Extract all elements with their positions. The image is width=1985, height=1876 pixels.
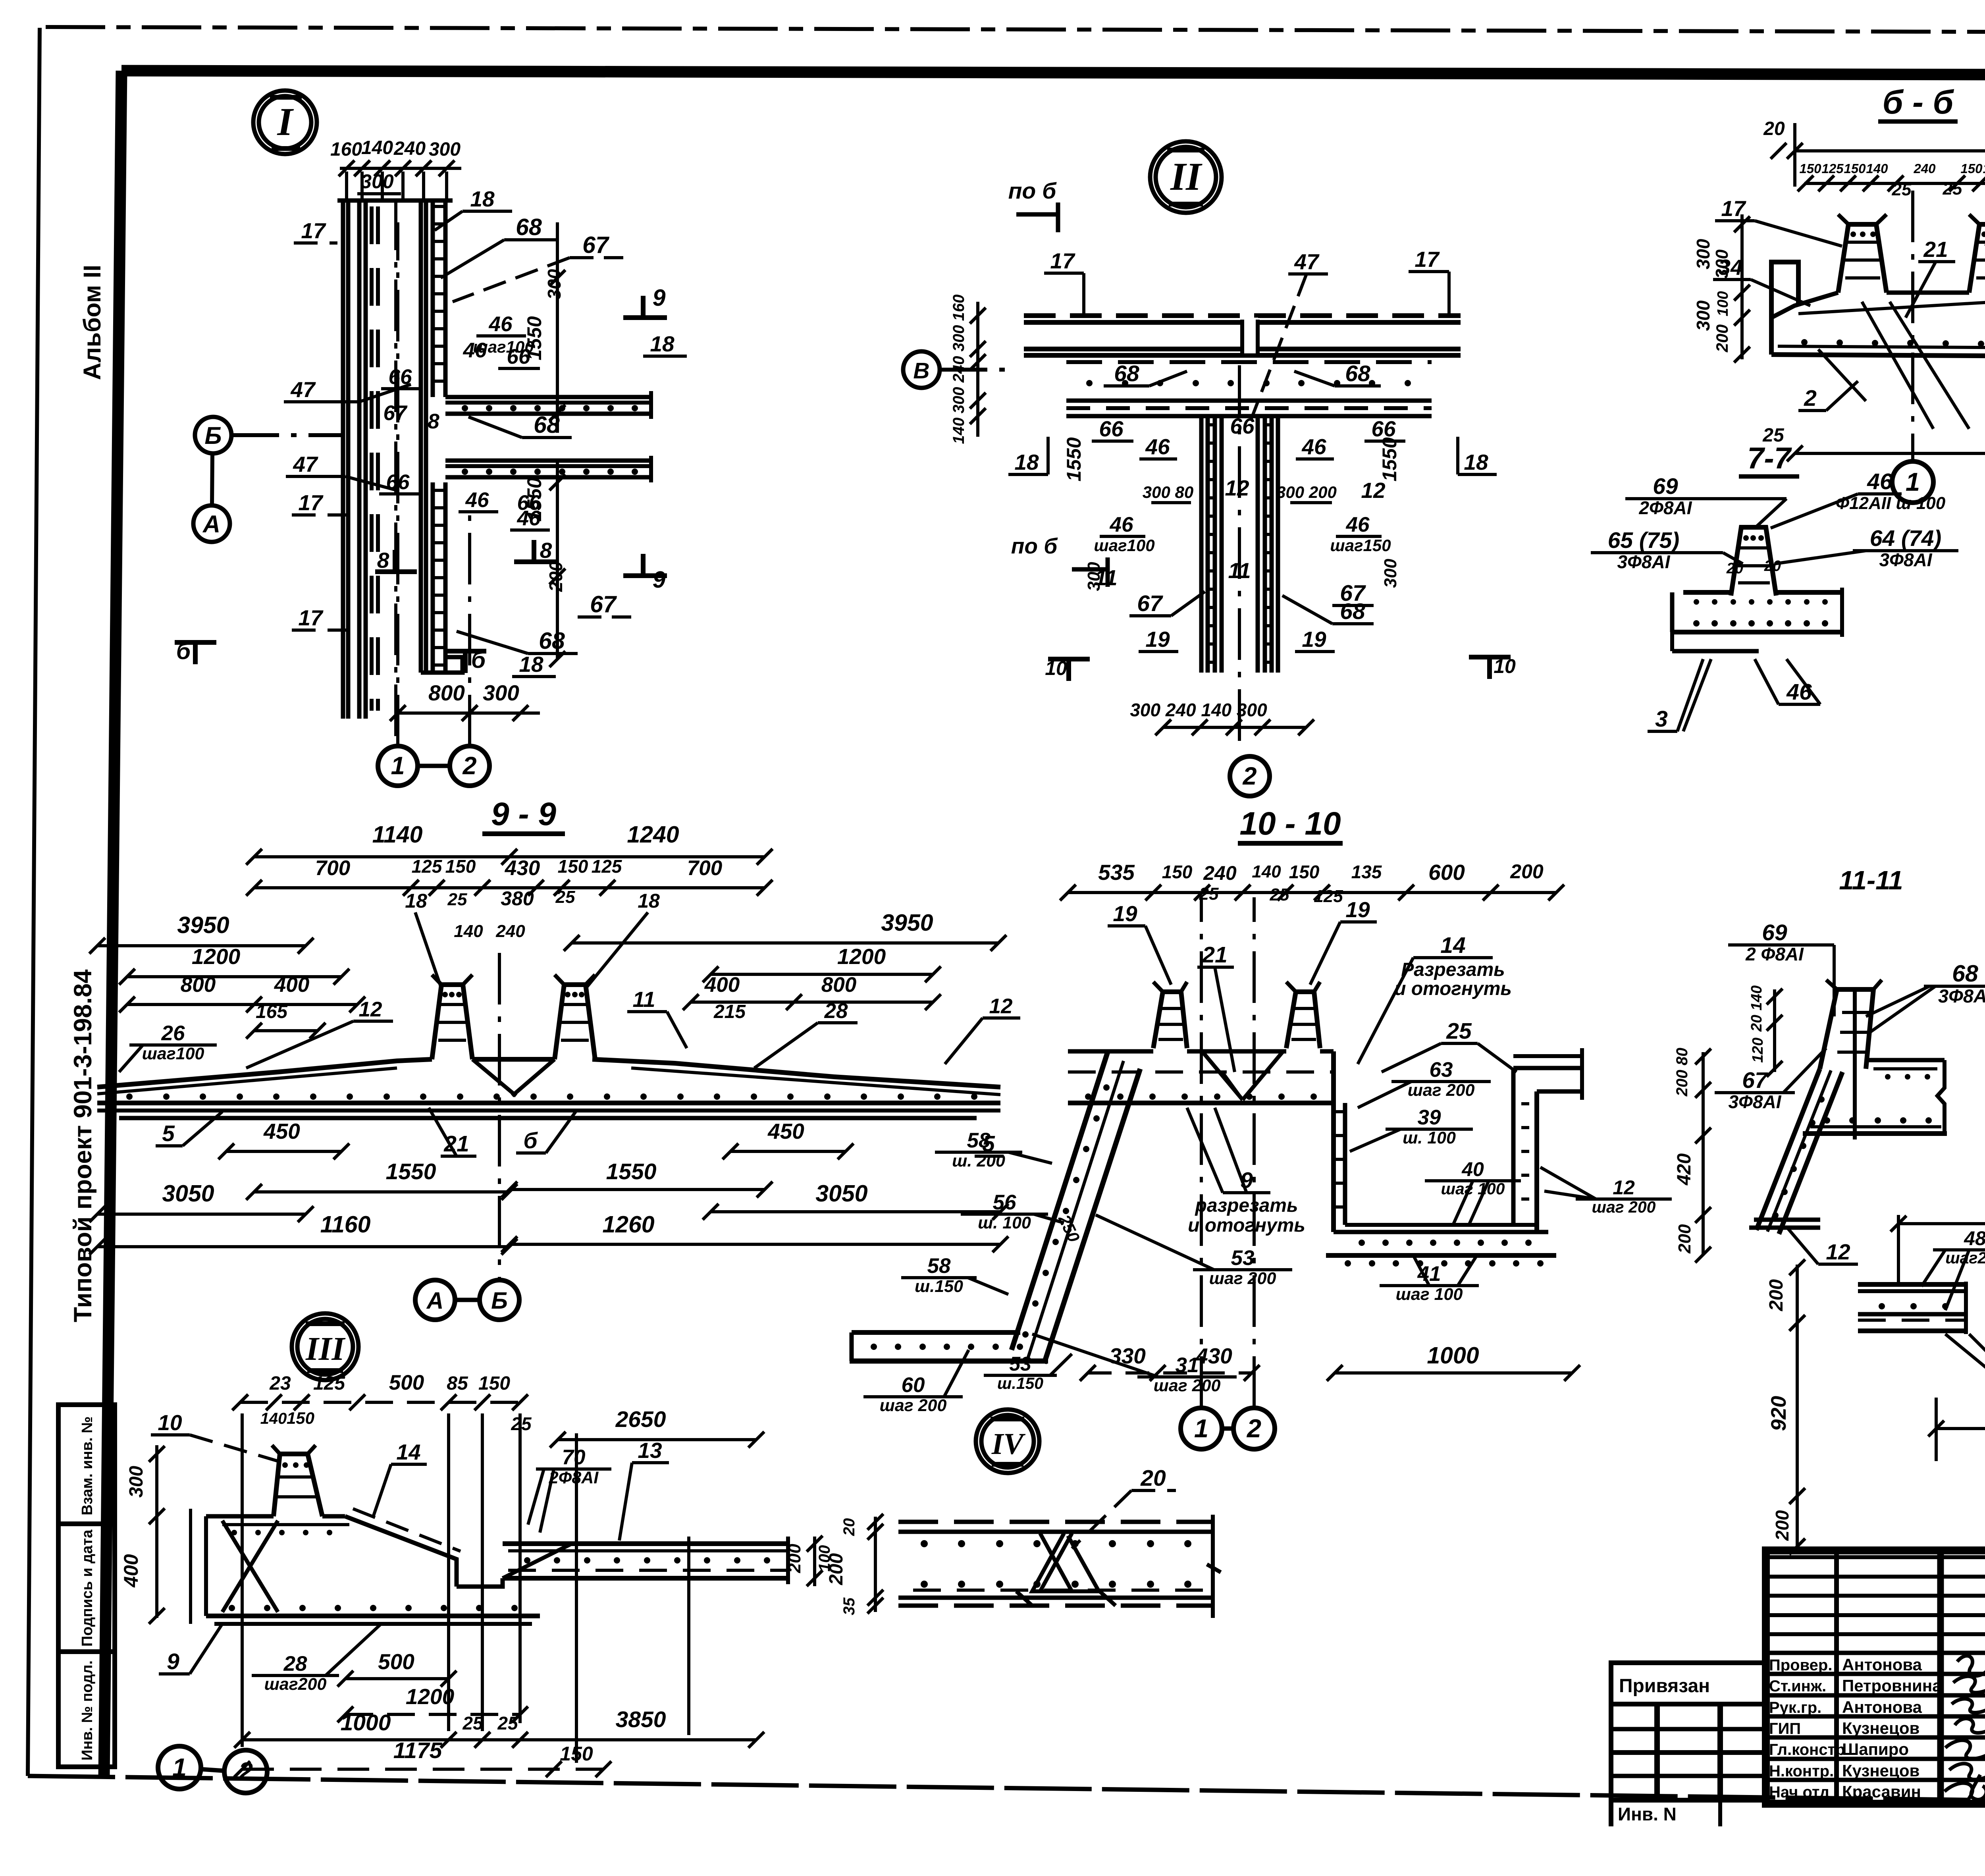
10-10 rib 1 (1153, 992, 1187, 1048)
svg-text:150: 150 (1162, 862, 1193, 882)
svg-text:9 - 9: 9 - 9 (491, 796, 556, 832)
svg-text:шаг 100: шаг 100 (1396, 1285, 1463, 1304)
svg-text:150: 150 (287, 1409, 314, 1427)
main title block frame (1766, 1550, 1985, 1804)
sheet outer trim line bottom (28, 1776, 1985, 1805)
svg-text:700: 700 (687, 856, 722, 880)
10-10 slab top between ribs (1068, 1049, 1153, 1054)
svg-text:240: 240 (1203, 862, 1237, 884)
11-11 diagonal foot (1754, 1218, 1820, 1222)
svg-text:300: 300 (483, 681, 519, 705)
svg-text:25: 25 (1270, 885, 1289, 904)
svg-text:Б: Б (491, 1288, 508, 1314)
svg-text:1550: 1550 (1063, 437, 1085, 481)
svg-text:1200: 1200 (192, 944, 241, 969)
axis lines to circles 1 2 (396, 222, 399, 746)
stamp columns (1834, 1550, 1839, 1804)
svg-text:67: 67 (1742, 1068, 1768, 1093)
svg-text:1550: 1550 (606, 1159, 657, 1184)
svg-text:40: 40 (1461, 1158, 1484, 1180)
7-7 slab (1683, 590, 1731, 595)
6-6 rib 1 (1838, 224, 1887, 293)
svg-text:IV: IV (991, 1427, 1026, 1461)
svg-text:69: 69 (1762, 920, 1787, 945)
svg-text:20: 20 (1140, 1465, 1166, 1491)
svg-text:Провер.: Провер. (1769, 1656, 1832, 1674)
svg-text:165: 165 (256, 1001, 288, 1022)
svg-text:разрезать: разрезать (1195, 1195, 1298, 1216)
svg-text:и отогнуть: и отогнуть (1188, 1215, 1305, 1236)
svg-text:II: II (1170, 154, 1203, 199)
svg-text:2 Ф8АI: 2 Ф8АI (1745, 944, 1804, 964)
svg-text:Инв. № подл.: Инв. № подл. (79, 1660, 96, 1760)
svg-text:Кузнецов: Кузнецов (1842, 1719, 1919, 1737)
svg-text:300: 300 (126, 1466, 147, 1498)
svg-text:66: 66 (507, 345, 530, 368)
svg-text:125: 125 (1821, 161, 1844, 176)
III right band (503, 1541, 788, 1546)
grid circle 2 (450, 746, 490, 786)
svg-text:10: 10 (158, 1410, 182, 1435)
svg-text:Гл.констр: Гл.констр (1769, 1741, 1845, 1758)
svg-text:ш. 100: ш. 100 (978, 1213, 1031, 1232)
svg-text:400: 400 (704, 973, 740, 997)
svg-text:8: 8 (540, 538, 552, 563)
6-6 profile left stub (1771, 262, 1798, 355)
11-11 slab right (1866, 1058, 1945, 1062)
svg-text:Нач отд: Нач отд (1769, 1783, 1829, 1801)
svg-text:68: 68 (539, 628, 565, 654)
svg-text:67: 67 (1137, 591, 1163, 616)
svg-text:500: 500 (378, 1649, 414, 1674)
svg-text:по б: по б (1011, 534, 1058, 558)
detail IV marker circle (976, 1409, 1039, 1473)
svg-text:125: 125 (412, 856, 443, 877)
svg-text:47: 47 (1294, 249, 1320, 274)
wall centerline (1238, 365, 1241, 750)
svg-text:47: 47 (293, 452, 318, 476)
svg-text:Красавин: Красавин (1842, 1782, 1921, 1801)
9-9 centre X bracing (472, 1059, 516, 1096)
svg-text:53: 53 (1231, 1246, 1255, 1270)
VII slab break (1966, 1282, 1985, 1334)
section mark 9 top (623, 315, 667, 320)
svg-text:8: 8 (428, 410, 439, 433)
upper floor slab arm (445, 395, 651, 399)
svg-text:800: 800 (821, 973, 856, 997)
svg-text:430: 430 (505, 856, 540, 880)
grid circle 1 (378, 746, 418, 786)
left margin stamp strip (58, 1405, 115, 1767)
svg-text:46: 46 (1110, 513, 1133, 536)
svg-text:140: 140 (454, 922, 483, 941)
III rib trapezoid (274, 1454, 322, 1516)
svg-text:Разрезать: Разрезать (1401, 959, 1505, 980)
twin wall verticals (1199, 416, 1204, 673)
svg-text:25: 25 (555, 887, 575, 907)
svg-text:11: 11 (1095, 565, 1117, 590)
svg-text:3Ф8АI: 3Ф8АI (1879, 549, 1932, 570)
svg-text:б - б: б - б (1883, 83, 1954, 121)
III bottom of left block (206, 1614, 540, 1618)
svg-text:150: 150 (558, 856, 588, 877)
svg-text:300 200: 300 200 (1276, 483, 1337, 501)
7-7 rib (1731, 527, 1776, 596)
III X bracing in block (222, 1521, 278, 1612)
svg-text:3050: 3050 (162, 1180, 214, 1207)
svg-text:200: 200 (1772, 1510, 1792, 1541)
svg-text:66: 66 (389, 365, 412, 389)
10-10 right rotated dims (1702, 1052, 1705, 1255)
svg-text:Н.контр.: Н.контр. (1769, 1762, 1834, 1780)
svg-text:шаг 200: шаг 200 (880, 1396, 947, 1415)
9-9 rib 2 (555, 985, 595, 1059)
svg-text:19: 19 (1145, 627, 1170, 652)
III top decline (345, 1516, 457, 1587)
9-9 leader 12 left (353, 1020, 393, 1023)
svg-text:400: 400 (274, 973, 309, 997)
svg-text:3Ф8АI: 3Ф8АI (1938, 985, 1985, 1006)
9-9 centre axis (498, 953, 501, 1279)
svg-text:12: 12 (989, 995, 1013, 1018)
svg-text:13: 13 (638, 1438, 662, 1463)
lower floor slab arm (445, 459, 651, 463)
svg-text:150: 150 (1799, 161, 1821, 176)
svg-text:3950: 3950 (177, 912, 229, 938)
svg-text:шаг 200: шаг 200 (1209, 1269, 1276, 1288)
svg-text:и отогнуть: и отогнуть (1394, 978, 1512, 999)
svg-text:300: 300 (1693, 300, 1713, 331)
10-10 pit bottom (1334, 1230, 1548, 1234)
svg-text:1240: 1240 (627, 821, 679, 848)
9-9 profile slab top chord (97, 1059, 432, 1087)
detail I wall panel verticals (341, 199, 345, 719)
svg-text:35: 35 (840, 1597, 858, 1615)
inner frame top (thick) (121, 71, 1985, 76)
svg-text:140: 140 (361, 137, 393, 158)
svg-text:140: 140 (1252, 862, 1281, 881)
svg-text:68: 68 (1952, 960, 1978, 987)
svg-text:300: 300 (1712, 249, 1732, 279)
grid circle 2 of view II (1230, 756, 1270, 796)
svg-text:3: 3 (1655, 706, 1668, 732)
svg-text:по б: по б (1008, 178, 1057, 204)
svg-text:28: 28 (283, 1652, 307, 1675)
svg-text:1550: 1550 (523, 477, 545, 521)
svg-text:600: 600 (1428, 860, 1465, 885)
10-10 ramp foot pad (852, 1330, 1020, 1335)
svg-text:3950: 3950 (881, 910, 933, 936)
III circles 1 2 (158, 1746, 201, 1789)
svg-text:46: 46 (1867, 469, 1892, 494)
svg-text:18: 18 (519, 652, 543, 677)
svg-text:Кузнецов: Кузнецов (1842, 1761, 1919, 1780)
svg-text:Инв. N: Инв. N (1618, 1804, 1677, 1824)
svg-text:2: 2 (1242, 762, 1257, 790)
svg-text:25: 25 (1943, 179, 1962, 199)
svg-text:17: 17 (1050, 249, 1075, 273)
svg-text:18: 18 (650, 332, 675, 356)
svg-text:Типовой проект 901-3-198.8: Типовой проект 901-3-198.84 (69, 970, 97, 1323)
svg-text:1000: 1000 (341, 1710, 391, 1735)
svg-text:Ст.инж.: Ст.инж. (1769, 1677, 1826, 1695)
svg-text:11: 11 (632, 987, 655, 1012)
svg-text:2: 2 (462, 752, 476, 780)
svg-text:100: 100 (1715, 291, 1731, 316)
svg-text:240: 240 (1913, 161, 1936, 176)
svg-text:17: 17 (1415, 247, 1440, 272)
grid circle В (903, 351, 940, 388)
svg-text:ш. 100: ш. 100 (1403, 1128, 1456, 1147)
svg-text:Антонова: Антонова (1842, 1655, 1922, 1674)
svg-text:20: 20 (840, 1518, 858, 1537)
svg-text:46: 46 (1346, 513, 1370, 536)
svg-text:420: 420 (1674, 1153, 1695, 1186)
svg-text:120: 120 (1750, 1037, 1766, 1062)
svg-text:67: 67 (384, 401, 408, 425)
svg-text:шаг 200: шаг 200 (1408, 1081, 1475, 1100)
svg-text:140: 140 (1866, 161, 1888, 176)
signature scrawls (1945, 1656, 1985, 1804)
svg-text:19: 19 (1345, 897, 1370, 922)
detail I marker circle (253, 91, 317, 154)
svg-text:18: 18 (638, 890, 660, 912)
svg-text:330: 330 (1109, 1344, 1146, 1368)
svg-text:25: 25 (1892, 180, 1912, 199)
svg-text:3050: 3050 (815, 1180, 867, 1207)
svg-text:Альбом II: Альбом II (79, 265, 106, 380)
svg-text:Петровнина: Петровнина (1842, 1676, 1942, 1695)
svg-text:300: 300 (950, 387, 967, 414)
svg-text:68: 68 (1340, 599, 1365, 624)
10-10 right slab arms (1513, 1066, 1582, 1070)
svg-text:20 140: 20 140 (1748, 985, 1765, 1032)
svg-text:12: 12 (1613, 1176, 1635, 1199)
wall joint dashed strip (370, 206, 374, 711)
svg-text:67: 67 (582, 232, 610, 258)
svg-text:39: 39 (1418, 1106, 1441, 1129)
svg-text:шаг200: шаг200 (264, 1675, 327, 1694)
svg-text:200: 200 (826, 1553, 847, 1585)
svg-text:20: 20 (1763, 118, 1785, 139)
stamp blank rows (1766, 1555, 1985, 1559)
section mark б bottom-left (175, 640, 216, 645)
svg-text:1200: 1200 (837, 944, 886, 969)
svg-text:125: 125 (313, 1373, 345, 1394)
svg-text:46: 46 (1145, 434, 1170, 459)
svg-text:58: 58 (927, 1254, 951, 1278)
III slab left block (206, 1514, 274, 1519)
sheet outer trim line left (28, 28, 40, 1776)
svg-text:135: 135 (1351, 862, 1382, 882)
svg-text:18: 18 (1464, 450, 1488, 474)
10-10 rib 2 (1286, 992, 1320, 1048)
svg-text:ш. 200: ш. 200 (952, 1151, 1005, 1170)
IV slab band (898, 1520, 1214, 1524)
detail II marker circle (1150, 141, 1222, 213)
IV right end cut (1211, 1515, 1215, 1618)
svg-text:17: 17 (301, 218, 326, 243)
11-11 rib trapezoid (1820, 989, 1873, 1069)
svg-text:380: 380 (501, 887, 534, 910)
svg-text:68: 68 (1114, 361, 1139, 386)
svg-text:А: А (202, 511, 220, 538)
svg-text:300 80: 300 80 (1143, 483, 1193, 501)
III right band left rise (503, 1544, 572, 1578)
10-10 slab bottom (1068, 1101, 1334, 1105)
svg-text:25: 25 (497, 1713, 518, 1733)
svg-text:400: 400 (120, 1554, 142, 1588)
svg-text:160: 160 (950, 295, 967, 321)
svg-text:23: 23 (269, 1373, 291, 1394)
section mark 9 bottom (623, 573, 667, 578)
svg-text:150: 150 (1844, 161, 1866, 176)
9-9 leader 28 (818, 1021, 858, 1024)
svg-text:б: б (523, 1128, 538, 1153)
svg-text:800: 800 (428, 681, 465, 705)
IV left rotated dims (874, 1517, 877, 1612)
arm cut ends (649, 391, 653, 419)
grid circles Б and А (195, 417, 231, 453)
svg-text:69: 69 (1653, 474, 1678, 499)
grid circles А Б of 9-9 (415, 1280, 455, 1320)
6-6 rib 2 (1969, 224, 1985, 293)
svg-text:2Ф8АI: 2Ф8АI (549, 1468, 599, 1487)
svg-text:125: 125 (1314, 887, 1343, 906)
III step to right band (457, 1578, 503, 1587)
svg-text:9: 9 (653, 567, 666, 593)
svg-text:68: 68 (1345, 361, 1370, 386)
svg-text:700: 700 (315, 856, 350, 880)
detail III marker circle (292, 1313, 358, 1380)
svg-text:ш.150: ш.150 (915, 1277, 963, 1296)
svg-text:А: А (426, 1288, 444, 1314)
svg-text:шаг100: шаг100 (1094, 536, 1154, 555)
9-9 rib 1 (432, 985, 472, 1059)
floor band below (1066, 360, 1432, 364)
svg-text:19: 19 (1113, 901, 1137, 926)
10-10 centre X bracing (1202, 1051, 1243, 1100)
cast wall face lines (419, 199, 423, 673)
svg-text:14: 14 (396, 1440, 420, 1464)
svg-text:Взам. инв. №: Взам. инв. № (79, 1416, 96, 1515)
svg-text:65 (75): 65 (75) (1608, 528, 1680, 553)
svg-text:1: 1 (1194, 1414, 1208, 1443)
svg-text:200: 200 (785, 1544, 804, 1573)
VII left dim chain (1796, 1265, 1799, 1548)
svg-text:150: 150 (1960, 161, 1983, 176)
svg-text:450: 450 (263, 1119, 300, 1143)
svg-text:800: 800 (181, 973, 216, 997)
svg-text:В: В (913, 358, 929, 384)
svg-text:46: 46 (1786, 679, 1812, 705)
svg-text:300: 300 (1693, 239, 1713, 269)
svg-text:300 240 140 300: 300 240 140 300 (1130, 700, 1267, 720)
svg-text:215: 215 (713, 1001, 746, 1022)
svg-text:125: 125 (592, 856, 622, 877)
svg-text:3Ф8АI: 3Ф8АI (1728, 1091, 1781, 1112)
9-9 slab bottom lines (97, 1101, 1000, 1105)
10-10 pit right wall (1511, 1068, 1516, 1225)
6-6 slab top mesh line (1798, 301, 1985, 314)
svg-text:200: 200 (1510, 860, 1544, 883)
svg-text:21: 21 (1923, 237, 1948, 262)
6-6 slab top chord (1771, 293, 1838, 318)
9-9 rib leaders 18 (415, 912, 441, 989)
svg-text:1: 1 (172, 1753, 187, 1782)
svg-text:11: 11 (1228, 558, 1251, 583)
svg-text:шаг150: шаг150 (1330, 536, 1391, 555)
svg-text:12: 12 (359, 998, 382, 1021)
svg-text:21: 21 (1202, 942, 1227, 968)
svg-text:150: 150 (445, 856, 476, 877)
svg-text:10 - 10: 10 - 10 (1239, 806, 1341, 842)
svg-text:1175: 1175 (393, 1738, 443, 1763)
svg-text:85: 85 (447, 1373, 468, 1394)
svg-text:300: 300 (1381, 559, 1400, 588)
svg-text:Подпись и дата: Подпись и дата (79, 1529, 96, 1647)
svg-text:26: 26 (161, 1022, 185, 1045)
svg-text:12: 12 (1826, 1240, 1850, 1264)
9-9 top mesh diagonal lines (97, 1068, 397, 1094)
svg-text:46: 46 (1301, 434, 1326, 459)
svg-text:17: 17 (298, 490, 324, 515)
svg-text:48: 48 (1964, 1227, 1985, 1249)
svg-text:14: 14 (1440, 933, 1465, 958)
svg-text:18: 18 (470, 187, 495, 211)
6-6 slab bottom (1771, 355, 1985, 359)
svg-text:150: 150 (1289, 862, 1320, 882)
III right rotated dims (813, 1537, 816, 1586)
wall bottom step (421, 657, 463, 673)
svg-text:200: 200 (1675, 1224, 1694, 1254)
III tall extension lines (241, 1413, 244, 1747)
svg-text:2650: 2650 (615, 1407, 666, 1432)
svg-text:12: 12 (1225, 476, 1249, 500)
section mark 8 pair (375, 569, 417, 574)
svg-text:I: I (277, 100, 294, 144)
svg-text:300: 300 (429, 139, 461, 160)
svg-text:46: 46 (489, 312, 513, 336)
svg-text:Привязан: Привязан (1619, 1675, 1710, 1697)
svg-text:240: 240 (393, 138, 426, 159)
svg-text:3850: 3850 (616, 1707, 666, 1732)
svg-text:1550: 1550 (386, 1159, 436, 1184)
6-6 leader lines from ribs to note (1862, 302, 1933, 429)
privyazan table (1611, 1663, 1766, 1800)
VII top slab (1858, 1282, 1985, 1287)
svg-text:5: 5 (162, 1121, 175, 1146)
svg-text:450: 450 (767, 1119, 804, 1143)
11-11 left rotated dims (1773, 989, 1776, 1072)
svg-text:18: 18 (1014, 450, 1039, 474)
svg-text:535: 535 (1098, 860, 1135, 885)
svg-text:25: 25 (447, 890, 467, 909)
svg-text:25: 25 (1446, 1018, 1472, 1044)
svg-text:19: 19 (1302, 627, 1326, 652)
svg-text:160: 160 (330, 139, 362, 160)
svg-text:Шапиро: Шапиро (1842, 1740, 1909, 1758)
svg-text:10: 10 (1494, 655, 1516, 677)
svg-text:шаг 200: шаг 200 (1154, 1376, 1221, 1395)
svg-text:47: 47 (290, 377, 316, 402)
svg-text:17: 17 (298, 605, 324, 630)
svg-text:III: III (305, 1330, 346, 1367)
svg-text:10: 10 (1045, 657, 1067, 679)
svg-text:ГИП: ГИП (1769, 1720, 1801, 1737)
svg-text:58: 58 (967, 1129, 991, 1152)
svg-text:53: 53 (1009, 1353, 1031, 1375)
